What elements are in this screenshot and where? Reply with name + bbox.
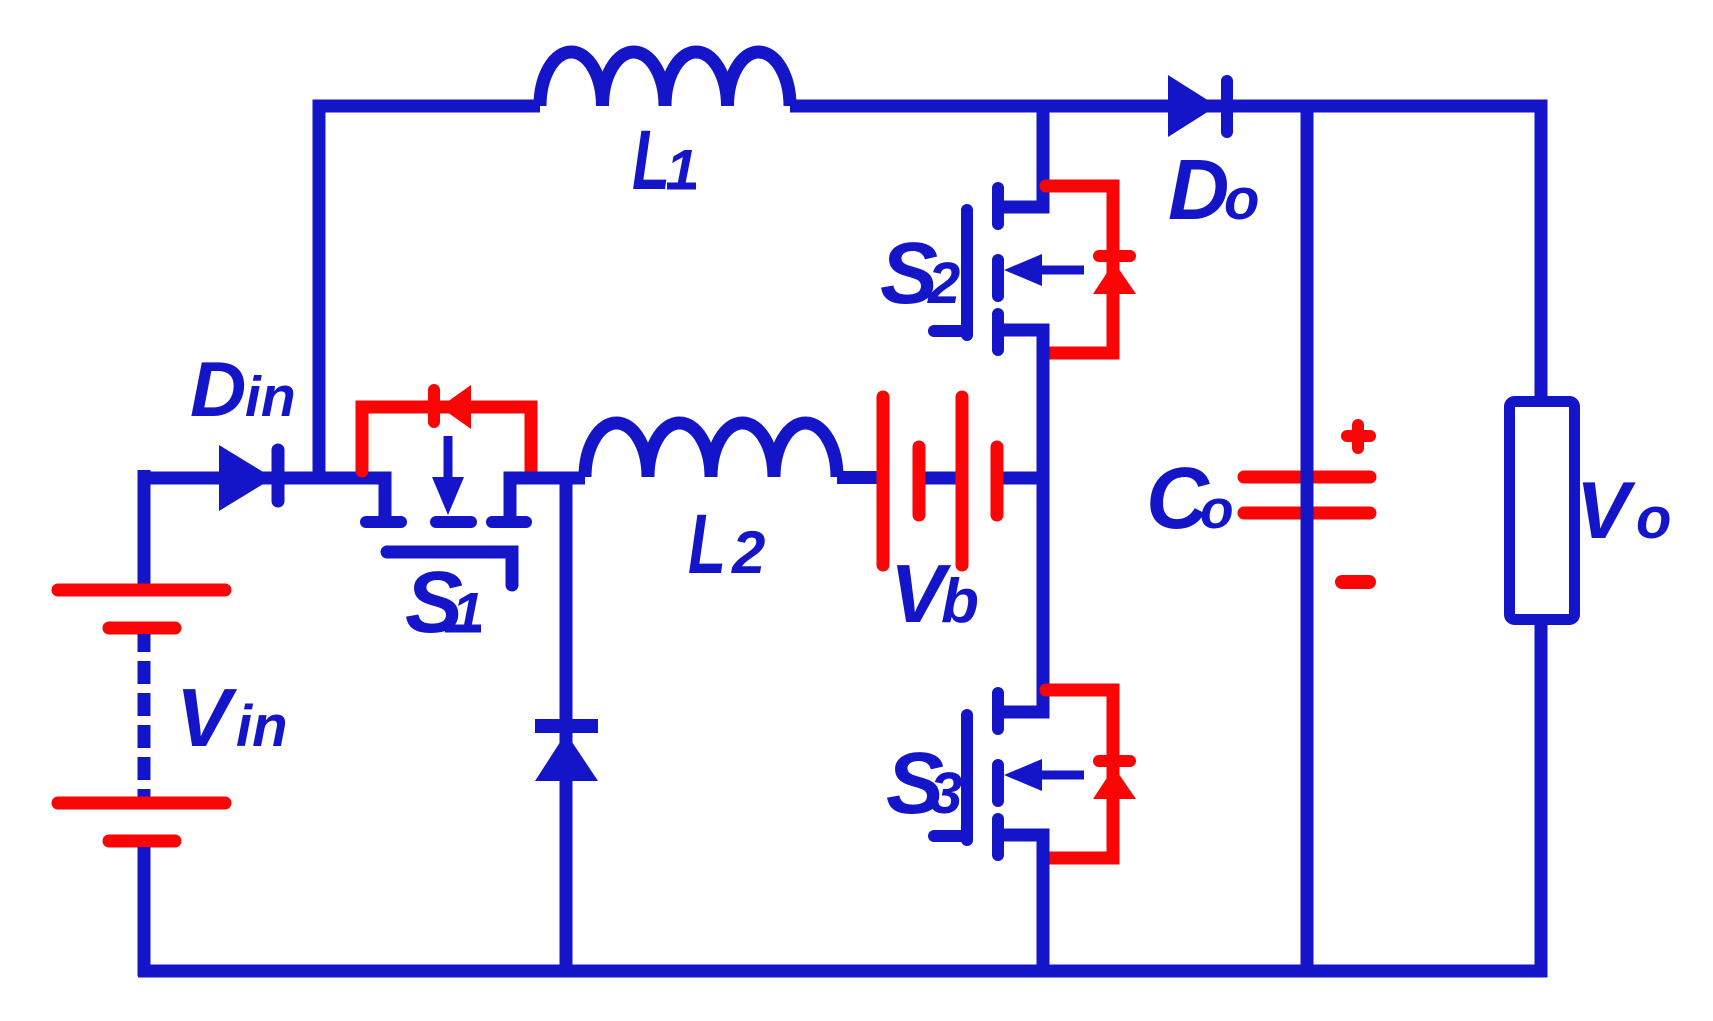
capacitor Co plates <box>1244 425 1370 582</box>
wire S1 source to L2 <box>510 478 585 516</box>
svg-text:2: 2 <box>731 519 765 586</box>
svg-text:o: o <box>1636 486 1671 551</box>
wire mid trunk down <box>560 478 573 970</box>
svg-text:in: in <box>236 694 288 759</box>
body diode of S3 <box>1046 690 1130 858</box>
body diode of S1 <box>362 390 531 471</box>
svg-text:3: 3 <box>930 761 962 826</box>
svg-text:2: 2 <box>927 251 960 316</box>
svg-text:1: 1 <box>666 138 698 202</box>
svg-text:V: V <box>176 671 238 764</box>
wire L2 to battery Vb <box>837 471 877 484</box>
battery Vin <box>58 590 225 841</box>
svg-text:D: D <box>190 345 246 433</box>
svg-text:V: V <box>1576 466 1636 556</box>
transistor S2 <box>934 188 1084 350</box>
wire middle rail <box>144 478 385 516</box>
svg-text:L: L <box>632 113 670 207</box>
svg-text:b: b <box>941 567 979 636</box>
svg-text:o: o <box>1224 167 1259 232</box>
transistor S1 <box>366 436 526 585</box>
inductor L1 <box>540 52 790 106</box>
svg-text:L: L <box>688 497 726 591</box>
wire S3 source to bottom rail <box>998 835 1043 970</box>
wire S2 drain from top rail <box>998 106 1043 207</box>
wire Co trunk <box>1301 106 1314 970</box>
svg-text:D: D <box>1168 143 1229 238</box>
diode Do <box>1168 75 1227 137</box>
wire right leg bottom and bottom rail <box>138 625 1541 971</box>
wire top rail right <box>790 106 1541 397</box>
svg-text:in: in <box>245 365 296 429</box>
wire left leg bottom <box>138 847 151 976</box>
load resistor Vo <box>1510 402 1575 620</box>
transistor S3 <box>934 693 1084 855</box>
inductor L2 <box>585 423 837 477</box>
wire S2 source to S3 drain <box>998 330 1043 712</box>
svg-text:1: 1 <box>452 581 484 645</box>
wire left leg top <box>138 470 151 590</box>
body diode of S2 <box>1046 186 1130 353</box>
svg-text:o: o <box>1200 478 1234 540</box>
freewheeling diode <box>535 726 598 781</box>
wire top rail with left riser <box>319 106 540 478</box>
diode Din <box>219 445 278 511</box>
battery Vb <box>883 397 1049 565</box>
